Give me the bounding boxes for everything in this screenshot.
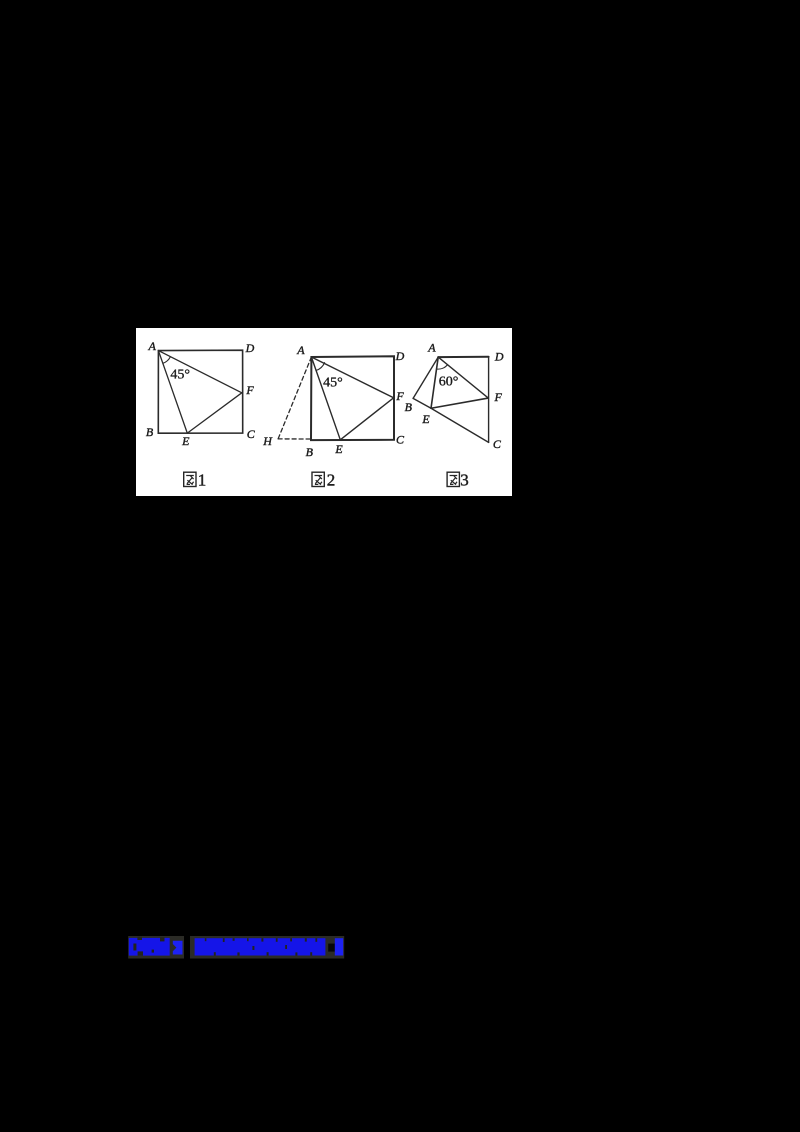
svg-text:45°: 45°: [323, 376, 343, 391]
svg-text:E: E: [181, 434, 190, 448]
svg-text:C: C: [247, 427, 256, 441]
svg-text:B: B: [146, 425, 154, 439]
svg-text:F: F: [395, 389, 404, 403]
svg-text:C: C: [493, 437, 502, 451]
svg-text:D: D: [395, 349, 405, 363]
svg-text:45°: 45°: [170, 368, 190, 383]
svg-text:F: F: [494, 390, 503, 404]
svg-text:B: B: [405, 400, 413, 414]
svg-text:D: D: [245, 341, 255, 355]
svg-text:C: C: [396, 433, 405, 447]
svg-text:A: A: [148, 339, 157, 353]
svg-text:60°: 60°: [439, 375, 459, 390]
svg-text:B: B: [306, 445, 314, 459]
svg-text:2: 2: [327, 471, 336, 490]
svg-text:H: H: [262, 434, 273, 448]
svg-text:3: 3: [460, 471, 469, 490]
svg-text:A: A: [427, 341, 436, 355]
svg-text:E: E: [334, 442, 343, 456]
svg-text:A: A: [296, 343, 305, 357]
svg-text:1: 1: [198, 471, 207, 490]
svg-text:F: F: [245, 383, 254, 397]
svg-text:D: D: [494, 350, 504, 364]
svg-text:E: E: [421, 412, 430, 426]
